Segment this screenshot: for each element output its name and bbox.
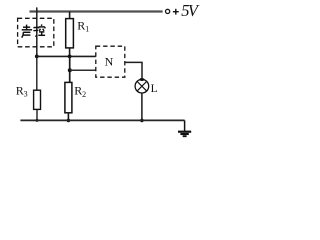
comparator unit N (dashed box): [96, 46, 125, 77]
resistor R3: [34, 56, 41, 120]
svg-text:R: R: [16, 83, 24, 97]
wire: ground bus (bottom): [20, 119, 184, 121]
wire: node A down to R2 top: [69, 56, 71, 82]
lamp L: [135, 78, 149, 93]
wire: +5V top rail: [30, 10, 163, 12]
voice-control unit (dashed box): [18, 18, 54, 47]
junction: lamp bottom on ground bus: [140, 119, 144, 123]
svg-text:R: R: [74, 84, 82, 98]
junction: R1 bottom on node A wire: [68, 55, 72, 59]
wire: node A horizontal to N input 1: [37, 55, 96, 57]
svg-text:3: 3: [24, 90, 28, 99]
wire: N output to lamp (right then down): [125, 62, 142, 79]
svg-text:L: L: [151, 83, 158, 95]
resistor R2: [65, 82, 72, 120]
ground symbol: [178, 120, 191, 136]
junction: node B (divider tap to N input 2): [68, 68, 72, 72]
svg-text:N: N: [105, 55, 114, 69]
resistor R1: [66, 12, 74, 57]
wire: node B to N input 2: [70, 69, 96, 71]
terminal: +5V open circle: [166, 9, 170, 13]
junction: R3 bottom on ground bus: [36, 119, 39, 122]
label R3: [16, 83, 28, 98]
junction: R2 bottom on ground bus: [67, 119, 71, 123]
label R2: [74, 84, 86, 99]
label: 声控 (drawn strokes): [22, 24, 45, 37]
wire: drop from rail through voice-control unit to node A: [36, 7, 38, 56]
svg-text:2: 2: [82, 90, 86, 99]
junction: node A (voice unit / R1 / R3 / N input 1): [35, 55, 39, 59]
wire: lamp bottom to ground bus: [141, 93, 143, 121]
svg-text:1: 1: [85, 25, 89, 34]
svg-text:R: R: [77, 18, 85, 32]
label: + 5V: [173, 1, 200, 20]
svg-text:5V: 5V: [181, 1, 200, 20]
label R1: [77, 18, 89, 33]
